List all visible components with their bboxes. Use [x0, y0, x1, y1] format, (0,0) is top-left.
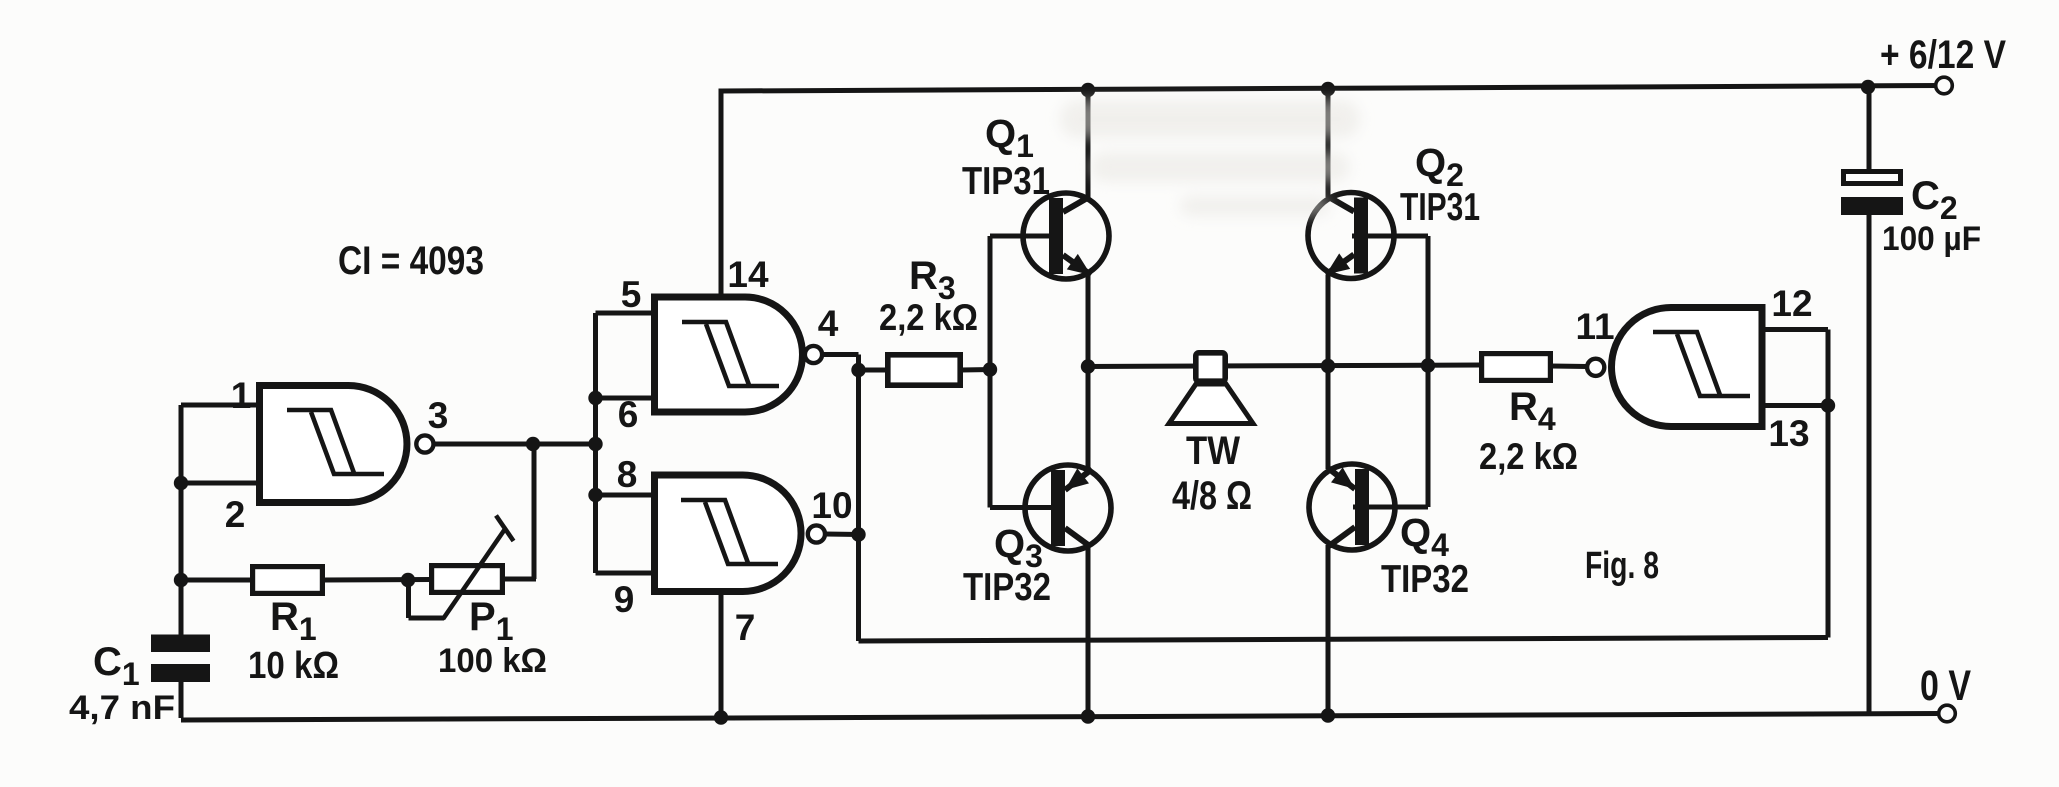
svg-text:1: 1	[231, 375, 252, 416]
svg-text:5: 5	[621, 274, 642, 315]
svg-text:CI = 4093: CI = 4093	[338, 239, 484, 283]
svg-text:4/8 Ω: 4/8 Ω	[1172, 474, 1252, 518]
svg-text:+ 6/12 V: + 6/12 V	[1880, 33, 2006, 77]
svg-text:Fig. 8: Fig. 8	[1585, 545, 1659, 587]
svg-text:2: 2	[225, 494, 246, 535]
svg-text:2,2 kΩ: 2,2 kΩ	[879, 297, 978, 338]
svg-text:13: 13	[1768, 413, 1809, 454]
svg-text:TIP32: TIP32	[1381, 558, 1469, 601]
svg-text:0 V: 0 V	[1920, 662, 1971, 710]
svg-text:10 kΩ: 10 kΩ	[248, 645, 339, 687]
svg-text:9: 9	[614, 579, 635, 620]
svg-text:4,7 nF: 4,7 nF	[69, 689, 175, 727]
svg-text:3: 3	[428, 395, 449, 436]
svg-text:8: 8	[617, 454, 638, 495]
svg-text:11: 11	[1575, 306, 1614, 347]
svg-text:10: 10	[811, 485, 852, 526]
svg-text:100 kΩ: 100 kΩ	[438, 642, 547, 680]
svg-text:12: 12	[1771, 283, 1812, 324]
svg-text:6: 6	[618, 394, 639, 435]
svg-text:7: 7	[735, 607, 756, 648]
svg-text:14: 14	[727, 254, 769, 295]
svg-text:4: 4	[818, 303, 839, 344]
svg-text:TIP31: TIP31	[962, 160, 1050, 203]
svg-text:100 µF: 100 µF	[1882, 220, 1981, 258]
svg-text:2,2 kΩ: 2,2 kΩ	[1479, 436, 1578, 477]
svg-text:TIP32: TIP32	[963, 566, 1051, 609]
svg-text:TIP31: TIP31	[1400, 186, 1480, 229]
svg-text:TW: TW	[1186, 429, 1240, 473]
